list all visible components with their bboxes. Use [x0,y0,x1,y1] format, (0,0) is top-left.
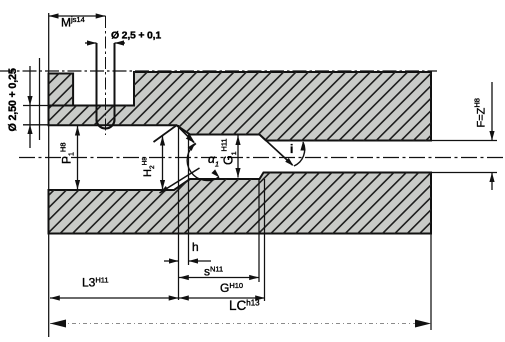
dimension s N11 [179,265,259,281]
dimension L3 H11 [50,276,179,301]
hole wall left [96,43,98,121]
top axis dash-dot line [0,70,437,72]
svg-text:Ø 2,5 + 0,1: Ø 2,5 + 0,1 [111,30,161,42]
seat line a (upper-left flank) [154,125,178,142]
F bore bottom extension [431,172,497,174]
extension line C (x=258 for s) [258,179,260,282]
angle i arc [290,142,306,167]
small hole Ø2,5 drill tip arc [97,120,115,129]
dimension F=Z H8 (right, rotated) [473,82,495,190]
countersink cone line with arrow (i) [260,135,294,167]
seat lower flank line c with arrow [160,168,200,193]
angle alpha1 arc [187,143,219,181]
dimension Ø 2,50 + 0,25 (left, rotated) [7,66,49,148]
dimension Ø 2,5 + 0,1 (hole) [85,30,161,46]
counterbore bottom edge across left collar [49,105,75,107]
auxiliary vertical line left of face [39,58,41,140]
svg-text:Ø 2,50 + 0,25: Ø 2,50 + 0,25 [7,68,19,131]
dimension P1 H8 (bore dia) [59,126,81,190]
dimension H2 H8 [142,136,166,190]
dimension G1 H11 (pocket dia) [220,136,241,178]
seat cone line b with arrow [177,125,196,143]
svg-text:h: h [192,240,199,254]
hole centerline [105,16,107,135]
left extension column at part face [48,13,50,337]
extension line A (x=178.5) [178,125,180,300]
F bore top extension [431,140,497,142]
hole wall right [114,43,116,121]
dimension G H10 [179,281,265,301]
extension line D (x=262 for G) [264,179,266,301]
svg-text:i: i [290,142,293,156]
dimension h [164,240,211,264]
dimension M js14 [49,13,106,29]
extension line B (x=188.5) [188,135,190,266]
right extension column (x=431) [430,234,432,331]
dimension LC h13 [50,298,431,328]
main centerline [19,157,503,159]
